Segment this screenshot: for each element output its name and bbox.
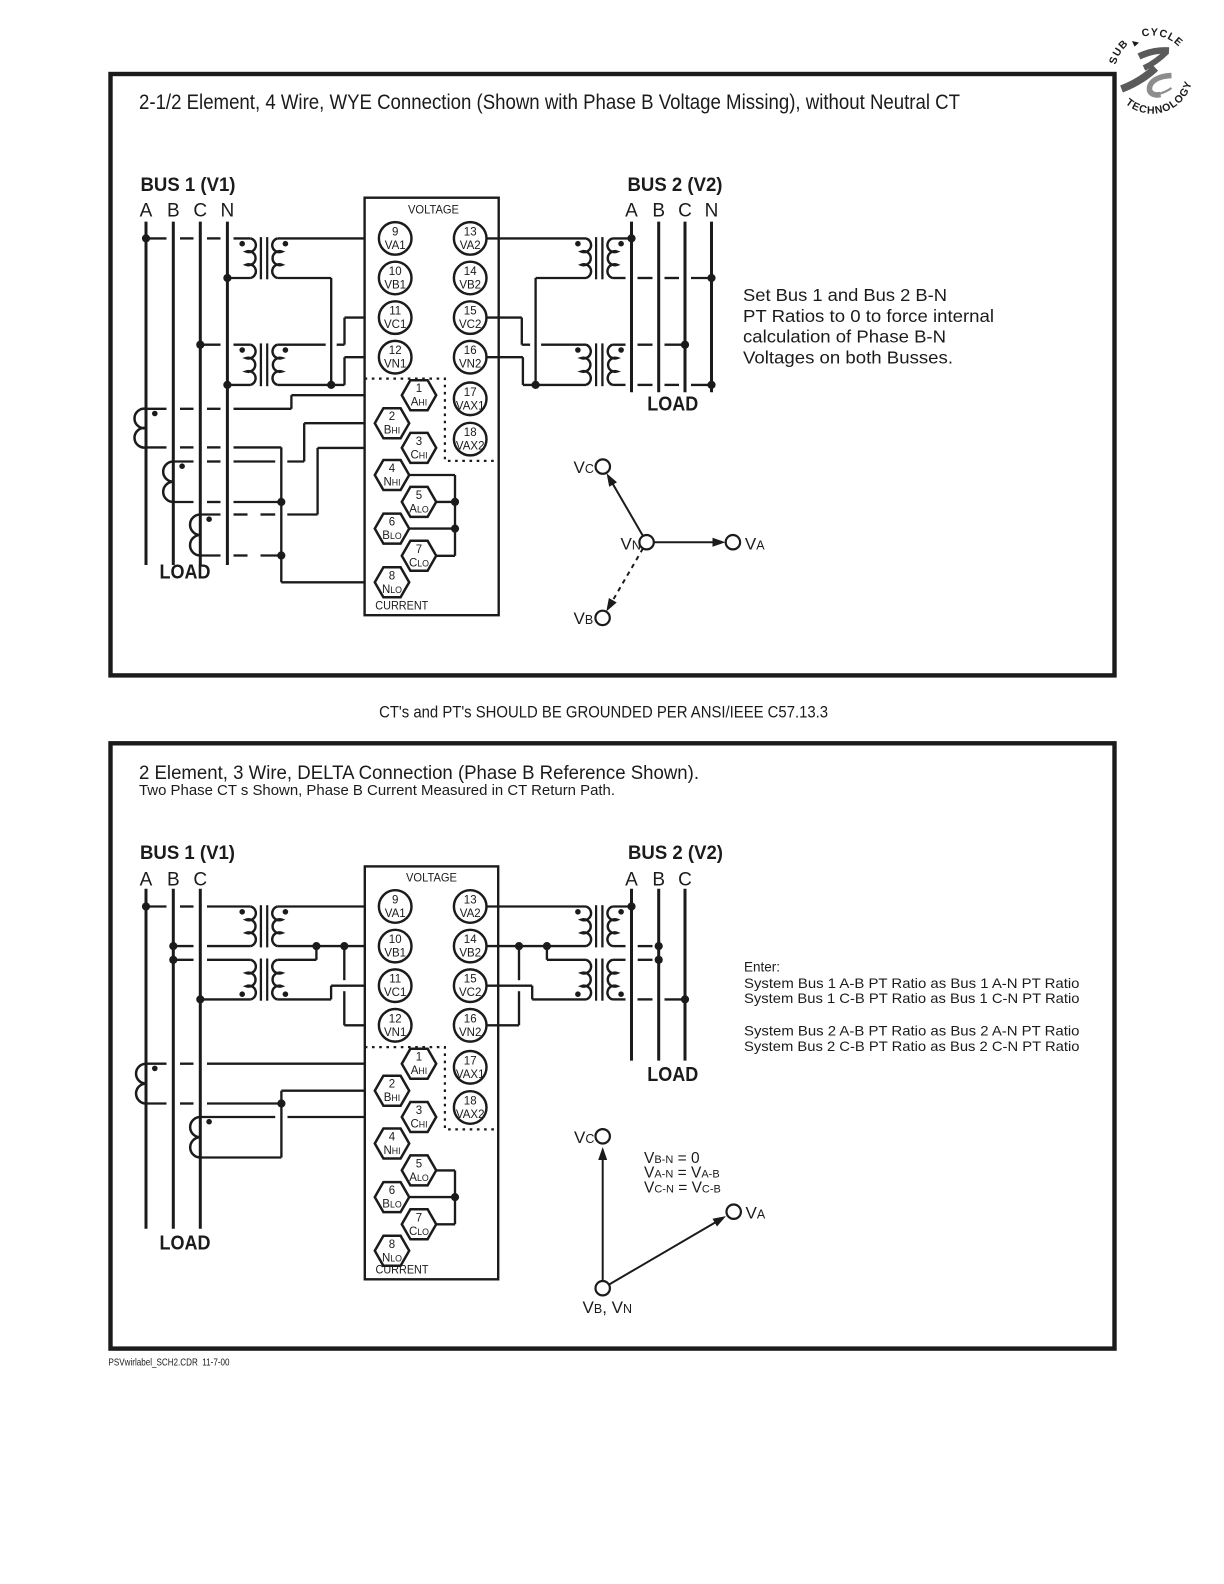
phase labels A B C N bus1 top — [140, 200, 235, 221]
polarity dot PT T3 primary — [618, 241, 624, 247]
CT B-phase bus1 (top diagram) — [163, 462, 173, 503]
svg-text:CHI: CHI — [410, 1119, 427, 1131]
svg-text:N: N — [705, 200, 719, 221]
node junction A-phase to PT T1 primary — [142, 234, 150, 242]
svg-text:Set Bus 1 and Bus 2 B-N: Set Bus 1 and Bus 2 B-N — [743, 285, 947, 305]
wire CT C bottom tap to NLO bus — [200, 554, 281, 556]
phasor node VC circle (bottom) — [596, 1129, 610, 1143]
svg-text:calculation of Phase B-N: calculation of Phase B-N — [743, 327, 946, 347]
svg-text:VA1: VA1 — [385, 908, 406, 920]
svg-text:18: 18 — [464, 427, 477, 439]
svg-text:1: 1 — [416, 1052, 422, 1064]
wire bus1 phase A line (bottom diagram) — [145, 889, 148, 1229]
svg-text:NLO: NLO — [382, 584, 402, 596]
svg-text:A: A — [140, 200, 153, 221]
svg-text:A: A — [140, 869, 153, 890]
wire PT T3 primary top to A — [613, 237, 632, 239]
svg-text:System Bus 1 A-B PT Ratio as B: System Bus 1 A-B PT Ratio as Bus 1 A-N P… — [744, 975, 1080, 991]
terminal pin 4 NHI hexagon (top) — [375, 460, 409, 490]
terminal pin 8 NLO hexagon (top) — [375, 567, 409, 597]
label VOLTAGE top box — [408, 202, 459, 216]
svg-text:VAX1: VAX1 — [456, 1069, 485, 1081]
polarity dot PT T7 primary — [618, 909, 624, 915]
polarity dot PT T8 secondary — [575, 991, 581, 997]
svg-text:B: B — [167, 869, 180, 890]
phasor node VA circle (top) — [726, 535, 740, 549]
svg-text:System Bus 2 C-B PT Ratio as B: System Bus 2 C-B PT Ratio as Bus 2 C-N P… — [744, 1038, 1080, 1054]
transformer PT T1 secondary winding — [272, 238, 282, 278]
phasor label VC (top) — [574, 458, 594, 477]
transformer PT T7 primary winding — [607, 907, 617, 947]
svg-text:ALO: ALO — [409, 1172, 429, 1184]
wire CT A top tap to pin 1 AHI — [146, 395, 402, 409]
polarity dot PT T8 primary — [618, 991, 624, 997]
svg-text:LOAD: LOAD — [647, 1064, 698, 1086]
transformer PT T4 secondary winding — [581, 345, 590, 385]
node junction C-phase bus2 PT T8 — [681, 995, 689, 1003]
phasor label VA (bottom) — [746, 1204, 766, 1223]
transformer PT T7 secondary winding — [581, 907, 591, 947]
note text Set Bus ratios (top box) — [743, 285, 994, 367]
svg-text:BUS 1 (V1): BUS 1 (V1) — [140, 843, 235, 864]
terminal box VOLTAGE/CURRENT (top diagram) — [365, 198, 499, 616]
outer frame box 1 (top diagram border) — [111, 74, 1115, 675]
wire CT C top tap to pin 3 CHI — [200, 448, 401, 515]
wire CT A bottom tap to NLO bus — [146, 446, 281, 448]
wire PT T8 secondary top to VB node (bottom bus2) — [547, 946, 586, 960]
terminal pin 1 AHI hexagon (bottom) — [402, 1049, 436, 1079]
svg-text:15: 15 — [464, 974, 477, 986]
transformer PT T2 core — [261, 343, 267, 386]
phasor arrow VB to VC (bottom) — [598, 1147, 607, 1281]
node junction C-phase PT T6 — [196, 995, 204, 1003]
node junction CT A return (bottom) — [277, 1099, 285, 1107]
phasor node VA circle (bottom) — [727, 1205, 741, 1219]
wire bus1 phase N line (top diagram) — [226, 222, 229, 565]
svg-text:C: C — [193, 869, 207, 890]
wire bus2 phase A line (bottom diagram) — [630, 889, 633, 1061]
svg-text:VAX2: VAX2 — [456, 441, 485, 453]
svg-text:17: 17 — [464, 387, 477, 399]
terminal pin 6 BLO hexagon (bottom) — [375, 1182, 409, 1212]
svg-text:VN2: VN2 — [459, 1027, 481, 1039]
terminal pin 13 VA2 (bottom) — [454, 890, 487, 923]
wire PT T4 secondary bottom to pin 16 VN2 — [487, 357, 587, 385]
node junction B-phase bus2 PT T7 — [655, 942, 663, 950]
phase labels A B C bus1 bottom — [140, 869, 208, 890]
polarity dot PT T2 secondary — [283, 347, 289, 353]
wire bus2 phase C line (top diagram) — [684, 222, 687, 393]
label BUS 1 (V1) top diagram — [141, 175, 236, 196]
transformer PT T8 primary winding — [607, 960, 617, 1000]
svg-text:14: 14 — [464, 934, 477, 946]
terminal box VOLTAGE/CURRENT (bottom diagram) — [365, 866, 498, 1279]
svg-text:VC1: VC1 — [384, 319, 406, 331]
svg-text:C: C — [678, 869, 692, 890]
svg-text:BHI: BHI — [384, 425, 400, 437]
label LOAD bus2 top diagram — [647, 394, 698, 416]
svg-text:4: 4 — [389, 1132, 396, 1144]
svg-text:18: 18 — [464, 1096, 477, 1108]
node junction B-phase bus2 PT T8 — [655, 956, 663, 964]
wire PT T6 primary bottom to C — [200, 998, 251, 1000]
terminal pin 10 VB1 (bottom) — [379, 930, 412, 963]
phasor label VA (top) — [745, 535, 765, 554]
svg-text:C: C — [193, 200, 207, 221]
polarity dot PT T1 secondary — [283, 241, 289, 247]
phasor label VC (bottom) — [574, 1128, 594, 1147]
node junction N-phase PT T2 — [223, 381, 231, 389]
node junction B-phase PT T5 — [169, 942, 177, 950]
wire PT T1 primary bottom to N — [227, 277, 250, 279]
node junction VB tie 1 (bottom) — [312, 942, 320, 950]
svg-text:VC1: VC1 — [384, 987, 406, 999]
phasor arrow VN to VB dashed (top) — [606, 548, 643, 611]
svg-text:LOAD: LOAD — [160, 562, 211, 584]
svg-text:VB2: VB2 — [459, 948, 481, 960]
phase labels A B C N bus2 top — [625, 200, 718, 221]
terminal pin 18 VAX2 (bottom) — [454, 1091, 487, 1124]
svg-text:VA2: VA2 — [460, 908, 481, 920]
polarity dot PT T2 primary — [239, 347, 245, 353]
phasor node VN circle (top) — [639, 535, 653, 549]
svg-text:2-1/2 Element, 4 Wire, WYE Con: 2-1/2 Element, 4 Wire, WYE Connection (S… — [139, 91, 960, 114]
wire PT T1 secondary bottom to VN node — [277, 278, 331, 385]
wire PT T1 primary top (dashed over B,C,N) — [146, 237, 251, 239]
svg-text:8: 8 — [389, 570, 395, 582]
node junction N-phase PT T1 — [223, 274, 231, 282]
CT A-phase bus1 (top diagram) — [134, 409, 146, 448]
terminal pin 13 VA2 (top) — [454, 222, 487, 255]
transformer PT T3 primary winding — [607, 238, 617, 278]
transformer PT T5 core — [261, 905, 267, 947]
svg-text:NHI: NHI — [383, 1145, 400, 1157]
phasor node VB VN circle (bottom) — [596, 1281, 610, 1295]
title text diagram 1 — [139, 91, 960, 114]
svg-text:VB2: VB2 — [459, 280, 481, 292]
label BUS 2 (V2) bottom diagram — [628, 843, 723, 864]
wire NLO return bus vertical — [281, 447, 375, 582]
svg-text:6: 6 — [389, 1185, 395, 1197]
svg-text:System Bus 2 A-B PT Ratio as B: System Bus 2 A-B PT Ratio as Bus 2 A-N P… — [744, 1023, 1080, 1039]
svg-text:BHI: BHI — [384, 1092, 400, 1104]
svg-text:VOLTAGE: VOLTAGE — [406, 871, 457, 885]
label LOAD bus1 bottom diagram — [160, 1233, 211, 1255]
svg-text:13: 13 — [464, 895, 477, 907]
svg-text:AHI: AHI — [411, 397, 427, 409]
wire PT T4 secondary top to pin 15 VC2 — [487, 318, 587, 345]
node junction B-phase PT T6 — [169, 956, 177, 964]
svg-text:VAX2: VAX2 — [456, 1109, 485, 1121]
svg-text:2 Element, 3 Wire, DELTA Conne: 2 Element, 3 Wire, DELTA Connection (Pha… — [139, 762, 699, 784]
title text diagram 2 — [139, 762, 699, 784]
node junction VN tie bus2 — [532, 381, 540, 389]
polarity dot CT A bus1 top — [152, 411, 158, 417]
phasor label VN (top) — [621, 535, 641, 554]
terminal pin 3 CHI hexagon (top) — [402, 433, 436, 463]
dashed partition dedicated CT region (bottom box) — [365, 1047, 498, 1129]
polarity dot PT T7 secondary — [575, 909, 581, 915]
wire PT T8 primary bottom to C (dashed over A,B) — [613, 998, 686, 1000]
svg-text:A: A — [625, 869, 638, 890]
wire PT T8 primary top to B (dashed over A) — [613, 959, 653, 961]
node junction N-phase bus2 PT T3 — [707, 274, 715, 282]
node junction VB tie 1 bus2 (bottom) — [543, 942, 551, 950]
svg-text:17: 17 — [464, 1055, 477, 1067]
CT C-phase bus1 (top diagram) — [190, 515, 200, 556]
wire CT A top tap to pin 1 AHI (bottom) — [146, 1063, 402, 1065]
svg-text:VB1: VB1 — [384, 948, 406, 960]
svg-text:BLO: BLO — [382, 1199, 402, 1211]
wire PT T5 primary top (dashed over B,C) — [146, 905, 251, 907]
wire PT T6 secondary top to VB node — [277, 946, 316, 960]
wire bus1 phase B line (top diagram) — [172, 222, 175, 565]
terminal pin 12 VN1 (top) — [379, 341, 412, 374]
transformer PT T2 secondary winding — [273, 345, 282, 385]
svg-text:7: 7 — [416, 1212, 422, 1224]
svg-text:13: 13 — [464, 226, 477, 238]
wire VN2 tie to VB node (bottom bus2) — [487, 946, 520, 1025]
node junction N-phase bus2 PT T4 — [707, 381, 715, 389]
polarity dot CT A bottom — [152, 1066, 158, 1072]
terminal pin 16 VN2 (bottom) — [454, 1009, 487, 1042]
transformer PT T5 primary winding — [246, 907, 256, 947]
wire bus1 phase B line (bottom diagram) — [172, 889, 175, 1229]
wire CT B top tap to pin 2 BHI — [173, 423, 374, 461]
svg-text:2: 2 — [389, 411, 395, 423]
transformer PT T4 core — [596, 343, 602, 386]
wire PT T5 primary bottom to B (dashed over C) — [173, 945, 251, 947]
svg-text:BUS 1 (V1): BUS 1 (V1) — [141, 175, 236, 196]
caption file name — [109, 1357, 230, 1369]
wire PT T4 primary bottom to N (dashed) — [613, 384, 712, 386]
svg-text:VC2: VC2 — [459, 987, 481, 999]
polarity dot CT C bus1 top — [206, 516, 212, 522]
terminal pin 10 VB1 (top) — [379, 262, 412, 295]
wire PT T7 primary bottom to B (dashed over A) — [613, 945, 653, 947]
phasor node VC circle (top) — [596, 459, 610, 473]
node junction CT-C return — [277, 551, 285, 559]
svg-text:VN2: VN2 — [459, 359, 481, 371]
transformer PT T8 secondary winding — [581, 960, 591, 1000]
terminal pin 7 CLO hexagon (bottom) — [402, 1209, 436, 1239]
svg-text:9: 9 — [392, 895, 398, 907]
wire CT return to pin 2 BHI (bottom) — [281, 1091, 374, 1158]
wire PT T7 secondary top to pin 13 VA2 — [487, 905, 587, 907]
phasor label VB VN (bottom) — [583, 1298, 633, 1317]
CT A-phase bus1 (bottom diagram) — [136, 1064, 146, 1104]
label CURRENT top box — [375, 599, 429, 613]
svg-text:NLO: NLO — [382, 1252, 402, 1264]
polarity dot PT T4 primary — [618, 347, 624, 353]
svg-text:VAX1: VAX1 — [456, 400, 485, 412]
wire CT C bottom tap to return (bottom) — [200, 1156, 281, 1158]
terminal pin 12 VN1 (bottom) — [379, 1009, 412, 1042]
svg-text:NHI: NHI — [383, 477, 400, 489]
terminal pin 5 ALO hexagon (top) — [402, 487, 436, 517]
svg-text:ALO: ALO — [409, 503, 429, 515]
wire PT T6 secondary bottom to pin 11 VC1 — [277, 986, 379, 1000]
svg-text:16: 16 — [464, 1013, 477, 1025]
svg-text:2: 2 — [389, 1079, 395, 1091]
node junction BLO common (bottom) — [451, 1193, 459, 1201]
label LOAD bus1 top diagram — [160, 562, 211, 584]
label LOAD bus2 bottom diagram — [647, 1064, 698, 1086]
transformer PT T5 secondary winding — [272, 907, 282, 947]
polarity dot PT T6 primary — [239, 991, 245, 997]
transformer PT T6 secondary winding — [272, 960, 282, 1000]
node junction A-phase PT T5 — [142, 902, 150, 910]
svg-text:PSVwirlabel_SCH2.CDR 11-7-00: PSVwirlabel_SCH2.CDR 11-7-00 — [109, 1357, 230, 1369]
label BUS 1 (V1) bottom diagram — [140, 843, 235, 864]
svg-text:VN1: VN1 — [384, 359, 406, 371]
svg-text:10: 10 — [389, 266, 402, 278]
phasor node VB circle (top) — [595, 611, 609, 625]
wire PT T7 primary top to A — [613, 905, 632, 907]
svg-text:CLO: CLO — [409, 557, 429, 569]
svg-text:VN1: VN1 — [384, 1027, 406, 1039]
svg-text:11: 11 — [389, 974, 401, 986]
terminal pin 16 VN2 (top) — [454, 341, 487, 374]
svg-text:10: 10 — [389, 934, 402, 946]
wire bus1 phase A line (top diagram) — [145, 222, 148, 565]
terminal pin 5 ALO hexagon (bottom) — [402, 1155, 436, 1185]
wire PT T8 secondary bottom to pin 15 VC2 — [487, 986, 587, 1000]
svg-text:Enter:: Enter: — [744, 959, 780, 975]
svg-text:VB1: VB1 — [384, 280, 406, 292]
svg-text:CHI: CHI — [410, 449, 427, 461]
phase labels A B C bus2 bottom — [625, 869, 692, 890]
svg-text:Voltages on both Busses.: Voltages on both Busses. — [743, 347, 953, 367]
wire current common NHI-ALO-BLO-CLO (top) — [409, 475, 455, 556]
svg-text:12: 12 — [389, 345, 402, 357]
wire PT T5 secondary bottom to pin 10 VB1 — [277, 945, 379, 947]
terminal pin 7 CLO hexagon (top) — [402, 541, 436, 571]
subtitle text diagram 2 — [139, 783, 615, 799]
svg-text:C: C — [678, 200, 692, 221]
wire PT T3 primary bottom to N (dashed) — [613, 277, 712, 279]
polarity dot PT T5 secondary — [283, 909, 289, 915]
transformer PT T6 core — [261, 959, 267, 1001]
label CURRENT bottom box — [376, 1263, 430, 1277]
terminal pin 18 VAX2 (top) — [454, 423, 487, 456]
terminal pin 11 VC1 (top) — [379, 301, 412, 334]
equation VC-N = VC-B — [644, 1180, 721, 1197]
wire bus2 phase B line (bottom diagram) — [657, 889, 660, 1061]
node junction ALO common (top) — [451, 498, 459, 506]
polarity dot CT B bus1 top — [179, 463, 185, 469]
svg-text:BUS 2 (V2): BUS 2 (V2) — [628, 843, 723, 864]
svg-text:4: 4 — [389, 463, 396, 475]
svg-text:3: 3 — [416, 436, 422, 448]
wire PT T3 secondary bottom to VN tie — [536, 278, 586, 385]
wire PT T6 primary top to B (dashed over C) — [173, 959, 251, 961]
svg-text:A: A — [625, 200, 638, 221]
wire bus2 phase C line (bottom diagram) — [684, 889, 687, 1061]
polarity dot CT C bottom — [206, 1119, 212, 1125]
transformer PT T3 core — [596, 237, 602, 279]
wire current common ALO-BLO-CLO (bottom) — [409, 1170, 455, 1224]
phasor arrow VB to VA (bottom) — [609, 1216, 726, 1285]
polarity dot PT T3 secondary — [575, 241, 581, 247]
svg-text:3: 3 — [416, 1105, 422, 1117]
svg-text:Two Phase CT s Shown, Phase B: Two Phase CT s Shown, Phase B Current Me… — [139, 783, 615, 799]
svg-text:System Bus 1 C-B PT Ratio as B: System Bus 1 C-B PT Ratio as Bus 1 C-N P… — [744, 990, 1080, 1006]
svg-text:7: 7 — [416, 544, 422, 556]
svg-text:5: 5 — [416, 490, 422, 502]
svg-text:AHI: AHI — [411, 1065, 427, 1077]
svg-text:8: 8 — [389, 1239, 395, 1251]
svg-text:LOAD: LOAD — [647, 394, 698, 416]
wire PT T2 secondary bottom to pin 12 VN1 — [277, 357, 379, 385]
node junction VB tie 2 bus2 (bottom) — [515, 942, 523, 950]
polarity dot PT T4 secondary — [575, 347, 581, 353]
equation VB-N = 0 — [644, 1150, 700, 1167]
svg-text:VA2: VA2 — [460, 240, 481, 252]
terminal pin 6 BLO hexagon (top) — [375, 514, 409, 544]
wire bus2 phase N line (top diagram) — [710, 222, 713, 393]
equation VA-N = VA-B — [644, 1165, 720, 1182]
logo Sub Cycle Technology — [1107, 26, 1195, 116]
terminal pin 1 AHI hexagon (top) — [402, 380, 436, 410]
svg-text:N: N — [221, 200, 235, 221]
transformer PT T7 core — [596, 905, 602, 947]
node junction A-phase bus2 PT T3 — [627, 234, 635, 242]
node junction A-phase bus2 PT T7 — [627, 902, 635, 910]
wire CT B bottom tap to NLO bus — [173, 501, 281, 503]
svg-text:VA1: VA1 — [385, 240, 406, 252]
polarity dot PT T1 primary — [239, 241, 245, 247]
transformer PT T6 primary winding — [246, 960, 256, 1000]
transformer PT T1 core — [261, 237, 267, 279]
terminal pin 15 VC2 (bottom) — [454, 969, 487, 1002]
svg-text:9: 9 — [392, 226, 398, 238]
node junction VN tie bus1 — [327, 381, 335, 389]
terminal pin 9 VA1 (bottom) — [379, 890, 412, 923]
terminal pin 17 VAX1 (bottom) — [454, 1051, 487, 1084]
svg-text:BLO: BLO — [382, 530, 402, 542]
wire bus2 phase B line (top diagram) — [657, 222, 660, 393]
transformer PT T3 secondary winding — [581, 238, 591, 278]
terminal pin 15 VC2 (top) — [454, 301, 487, 334]
svg-text:PT Ratios to 0 to force intern: PT Ratios to 0 to force internal — [743, 306, 994, 326]
wire PT T2 primary top (dashed over N) — [200, 344, 251, 346]
polarity dot PT T6 secondary — [283, 991, 289, 997]
dashed partition dedicated CT region (top box) — [365, 379, 499, 461]
transformer PT T2 primary winding — [246, 345, 255, 385]
node junction C-phase to PT T2 primary — [196, 341, 204, 349]
svg-text:B: B — [652, 869, 665, 890]
wire PT T7 secondary bottom to pin 14 VB2 — [487, 945, 587, 947]
wire PT T2 secondary top to pin 11 VC1 — [277, 318, 379, 345]
svg-text:1: 1 — [416, 383, 422, 395]
svg-text:CLO: CLO — [409, 1226, 429, 1238]
label BUS 2 (V2) top diagram — [628, 175, 723, 196]
note text CTs and PTs grounding — [379, 703, 828, 721]
wire bus1 phase C line (top diagram) — [199, 222, 202, 565]
svg-text:11: 11 — [389, 306, 401, 318]
svg-text:CURRENT: CURRENT — [375, 599, 429, 613]
transformer PT T8 core — [596, 959, 602, 1001]
transformer PT T4 primary winding — [608, 345, 617, 385]
svg-text:12: 12 — [389, 1013, 402, 1025]
polarity dot PT T5 primary — [239, 909, 245, 915]
terminal pin 9 VA1 (top) — [379, 222, 412, 255]
wire bus2 phase A line (top diagram) — [630, 222, 633, 393]
svg-text:B: B — [652, 200, 665, 221]
svg-text:5: 5 — [416, 1158, 422, 1170]
wire bus1 phase C line (bottom diagram) — [199, 889, 202, 1229]
